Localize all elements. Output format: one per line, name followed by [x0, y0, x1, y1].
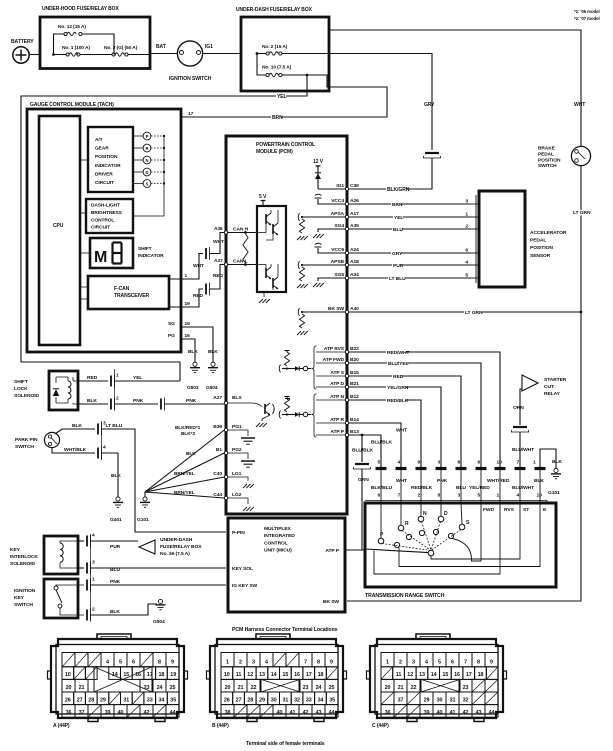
svg-text:BRN: BRN — [392, 202, 403, 208]
svg-text:SHIFT: SHIFT — [14, 379, 28, 385]
indicator lamp circles P R N D S — [143, 132, 151, 140]
svg-text:40: 40 — [437, 710, 443, 716]
svg-text:SWITCH: SWITCH — [538, 163, 557, 169]
svg-text:A18: A18 — [350, 259, 359, 265]
svg-text:ACCELERATOR: ACCELERATOR — [530, 230, 567, 236]
svg-text:22: 22 — [251, 685, 257, 691]
coil key interlock — [60, 543, 63, 562]
svg-text:4: 4 — [265, 660, 268, 666]
svg-text:40: 40 — [118, 710, 124, 716]
svg-text:31: 31 — [283, 697, 289, 703]
svg-text:33: 33 — [147, 697, 153, 703]
ground G101 left — [143, 497, 147, 501]
wire LG2 to ground — [228, 498, 248, 504]
svg-text:CPU: CPU — [53, 223, 64, 229]
svg-text:CIRCUIT: CIRCUIT — [95, 180, 114, 186]
svg-text:RVS: RVS — [504, 507, 515, 513]
svg-text:23: 23 — [463, 685, 469, 691]
gauge control module (TACH) box — [27, 109, 181, 352]
svg-text:UNDER-DASH: UNDER-DASH — [160, 537, 193, 543]
svg-text:APSB: APSB — [331, 259, 345, 265]
svg-text:YEL: YEL — [133, 375, 142, 381]
svg-text:PEDAL: PEDAL — [530, 238, 546, 244]
svg-text:2: 2 — [418, 493, 421, 499]
svg-text:4: 4 — [106, 660, 109, 666]
svg-text:4: 4 — [465, 260, 468, 266]
svg-text:1: 1 — [116, 373, 119, 379]
svg-text:29: 29 — [100, 697, 106, 703]
svg-text:BLU/BLK: BLU/BLK — [371, 440, 393, 446]
svg-text:KEY: KEY — [14, 595, 25, 601]
svg-text:A40: A40 — [350, 306, 359, 312]
svg-text:8: 8 — [317, 660, 320, 666]
svg-text:WHT: WHT — [574, 102, 586, 108]
wire BRN A26 — [349, 203, 471, 205]
svg-text:10: 10 — [65, 672, 71, 678]
svg-text:GRY: GRY — [424, 102, 435, 108]
svg-text:UNIT (MICU): UNIT (MICU) — [264, 548, 292, 554]
wire BLU to MICU — [78, 567, 84, 569]
svg-text:29: 29 — [424, 697, 430, 703]
svg-text:WHT: WHT — [396, 478, 407, 484]
svg-text:PNK: PNK — [437, 478, 448, 484]
svg-text:9: 9 — [490, 660, 493, 666]
wire BLU A35 — [349, 228, 471, 230]
svg-text:ATP D: ATP D — [330, 381, 344, 387]
wire RED/BLK B12 — [349, 400, 421, 467]
connector B (44P) — [210, 639, 343, 718]
svg-text:SOLENOID: SOLENOID — [14, 393, 40, 399]
svg-text:A35: A35 — [350, 223, 359, 229]
node LT GRN junction — [580, 311, 583, 314]
svg-text:ATP RVS: ATP RVS — [324, 346, 345, 352]
svg-text:31: 31 — [123, 697, 129, 703]
svg-text:19: 19 — [185, 301, 191, 307]
svg-text:B13: B13 — [350, 429, 359, 435]
svg-text:39: 39 — [105, 710, 111, 716]
transistor CAN H pair — [265, 214, 267, 224]
svg-text:BLK*2: BLK*2 — [181, 431, 195, 437]
svg-text:34: 34 — [318, 697, 324, 703]
svg-text:LG2: LG2 — [232, 492, 242, 498]
svg-text:BRAKE: BRAKE — [538, 146, 556, 152]
wire ORN to capacitor — [520, 389, 522, 425]
svg-text:36: 36 — [66, 710, 72, 716]
svg-text:YEL: YEL — [394, 215, 403, 221]
wire No.2 fuse to GRY drop — [329, 54, 432, 151]
svg-text:42: 42 — [463, 710, 469, 716]
wire SG4 internal to ground — [318, 229, 345, 232]
svg-text:KEY SOL: KEY SOL — [232, 566, 253, 572]
svg-text:SENSOR: SENSOR — [530, 253, 551, 259]
svg-text:DRIVER: DRIVER — [95, 171, 113, 177]
svg-text:30: 30 — [271, 697, 277, 703]
wire F-CAN WHT to CAN H — [169, 254, 203, 280]
svg-text:S: S — [466, 520, 470, 526]
resistor CAN termination — [243, 234, 248, 263]
svg-text:35: 35 — [170, 697, 176, 703]
bracket ATP upper group — [312, 346, 317, 389]
triangle connector under-dash box — [139, 540, 155, 554]
starter cut relay triangle — [522, 375, 538, 391]
svg-text:R: R — [405, 521, 409, 527]
svg-text:BRN/YEL: BRN/YEL — [174, 471, 195, 477]
svg-text:BLK/GRN: BLK/GRN — [387, 187, 410, 193]
svg-text:BRN/YEL: BRN/YEL — [174, 490, 195, 496]
wire MICU ATP P — [345, 549, 362, 551]
svg-text:A34: A34 — [350, 272, 359, 278]
wire SG to ground — [182, 327, 214, 362]
svg-text:RED: RED — [87, 375, 98, 381]
svg-text:YEL/GRN: YEL/GRN — [387, 385, 409, 391]
svg-text:TRANSMISSION RANGE SWITCH: TRANSMISSION RANGE SWITCH — [365, 593, 445, 599]
ground G503 gauge — [193, 362, 197, 366]
node under-dash bus junction — [256, 52, 259, 55]
svg-text:G503: G503 — [187, 385, 199, 391]
svg-text:10: 10 — [224, 672, 230, 678]
svg-text:18: 18 — [478, 672, 484, 678]
svg-text:LG1: LG1 — [232, 471, 242, 477]
capacitor on GRY wire — [425, 152, 439, 154]
svg-text:4: 4 — [92, 533, 95, 539]
svg-text:24: 24 — [316, 685, 322, 691]
svg-text:C36: C36 — [350, 183, 359, 189]
wire APSA internal with protection — [302, 216, 345, 218]
svg-text:12 V: 12 V — [313, 159, 324, 165]
svg-text:CONTROL: CONTROL — [264, 540, 288, 546]
svg-text:A24: A24 — [350, 247, 359, 253]
svg-text:IG KEY SW: IG KEY SW — [232, 583, 258, 589]
svg-text:20: 20 — [385, 685, 391, 691]
svg-text:BLK: BLK — [110, 609, 120, 615]
svg-text:YEL/RED: YEL/RED — [469, 485, 490, 491]
svg-text:3: 3 — [412, 660, 415, 666]
svg-text:BLK: BLK — [87, 398, 97, 404]
svg-text:28: 28 — [247, 697, 253, 703]
svg-text:35: 35 — [329, 697, 335, 703]
svg-text:POSITION: POSITION — [530, 245, 553, 251]
svg-text:Terminal side of female termin: Terminal side of female terminals — [246, 741, 325, 747]
svg-text:4: 4 — [398, 460, 401, 466]
wire B13 branch to capacitor GRN — [361, 435, 363, 462]
svg-text:41: 41 — [290, 710, 296, 716]
svg-text:33: 33 — [306, 697, 312, 703]
svg-text:No. 2 (G) (50 A): No. 2 (G) (50 A) — [104, 45, 138, 51]
svg-text:13: 13 — [259, 672, 265, 678]
diode shift lock — [55, 377, 57, 403]
svg-text:19: 19 — [170, 672, 176, 678]
wire RVS return — [374, 503, 500, 574]
svg-text:C40: C40 — [213, 471, 222, 477]
wire top feed to brake switch — [329, 30, 581, 146]
svg-text:21: 21 — [398, 685, 404, 691]
range switch connector bars — [376, 467, 387, 470]
svg-text:ST: ST — [523, 507, 529, 513]
ATP lower driver circuit — [285, 396, 290, 398]
svg-text:GEAR: GEAR — [95, 146, 109, 152]
svg-text:GRN: GRN — [358, 477, 369, 483]
capacitor VCC4 internal — [318, 199, 345, 204]
CPU box — [39, 116, 80, 345]
svg-text:F-CAN: F-CAN — [114, 286, 130, 292]
svg-text:BLK: BLK — [188, 349, 198, 355]
svg-text:CONTROL: CONTROL — [91, 217, 114, 223]
svg-text:APSA: APSA — [331, 211, 345, 217]
wire CPU to shift indicator box — [80, 252, 90, 254]
wire PNK to MICU — [86, 580, 88, 591]
svg-text:7: 7 — [304, 660, 307, 666]
node bus junction — [52, 53, 55, 56]
wire CPU to dash-light box — [80, 212, 86, 214]
svg-text:WHT: WHT — [213, 239, 224, 245]
svg-text:KEY: KEY — [10, 547, 21, 553]
ground G101 right — [554, 468, 558, 472]
svg-text:27: 27 — [77, 697, 83, 703]
wire ATP P B13 — [349, 435, 381, 467]
svg-text:PEDAL: PEDAL — [538, 151, 554, 157]
svg-text:WHT: WHT — [193, 263, 204, 269]
svg-text:17: 17 — [306, 672, 312, 678]
svg-text:2: 2 — [399, 660, 402, 666]
svg-text:GAUGE CONTROL MODULE (TACH): GAUGE CONTROL MODULE (TACH) — [30, 102, 114, 108]
svg-text:1: 1 — [226, 660, 229, 666]
accelerator pedal position sensor box — [479, 191, 525, 287]
svg-text:23: 23 — [303, 685, 309, 691]
svg-text:IG1: IG1 — [336, 183, 344, 189]
svg-text:SWITCH: SWITCH — [15, 444, 34, 450]
range switch inner contacts — [394, 542, 399, 547]
svg-text:21: 21 — [238, 685, 244, 691]
svg-text:SG: SG — [168, 321, 175, 327]
connector on RED wire — [205, 284, 207, 295]
wire LG1 to ground — [228, 477, 248, 481]
svg-text:SWITCH: SWITCH — [14, 602, 33, 608]
wire CPU to A/T gear box — [80, 159, 88, 161]
svg-text:16: 16 — [454, 672, 460, 678]
svg-text:R: R — [146, 146, 149, 151]
svg-text:M: M — [94, 249, 107, 266]
svg-text:4: 4 — [517, 493, 520, 499]
svg-text:No. 2 (15 A): No. 2 (15 A) — [262, 44, 288, 50]
svg-text:7: 7 — [398, 493, 401, 499]
svg-text:6: 6 — [378, 493, 381, 499]
svg-text:6: 6 — [451, 660, 454, 666]
svg-text:9: 9 — [171, 660, 174, 666]
svg-text:POSITION: POSITION — [95, 154, 118, 160]
svg-text:26: 26 — [224, 697, 230, 703]
svg-text:ATP N: ATP N — [330, 394, 344, 400]
svg-text:MODULE (PCM): MODULE (PCM) — [256, 149, 293, 155]
svg-text:3: 3 — [465, 199, 468, 205]
svg-text:N: N — [146, 158, 149, 163]
svg-text:15: 15 — [443, 672, 449, 678]
ground G401 — [116, 497, 120, 501]
svg-text:12: 12 — [407, 672, 413, 678]
wire CAN H into box — [228, 232, 257, 234]
shift lock solenoid box — [49, 371, 78, 410]
svg-text:G504: G504 — [153, 619, 165, 625]
svg-text:17: 17 — [466, 672, 472, 678]
svg-text:41: 41 — [450, 710, 456, 716]
svg-text:6: 6 — [132, 660, 135, 666]
wire F-CAN RED to CAN L — [169, 289, 203, 307]
svg-text:G401: G401 — [110, 517, 122, 523]
svg-text:7: 7 — [517, 460, 520, 466]
wire YEL/GRN B21 — [349, 387, 441, 467]
svg-text:44: 44 — [329, 710, 335, 716]
svg-text:1: 1 — [465, 212, 468, 218]
svg-text:16: 16 — [294, 672, 300, 678]
svg-text:36: 36 — [385, 710, 391, 716]
svg-text:A26: A26 — [350, 198, 359, 204]
pin A36 CAN H — [224, 231, 227, 234]
APP sensor pins — [471, 203, 476, 205]
svg-text:RED/BLK: RED/BLK — [411, 485, 433, 491]
svg-text:B22: B22 — [350, 346, 359, 352]
svg-text:C (44P): C (44P) — [372, 723, 389, 729]
svg-text:15: 15 — [185, 321, 191, 327]
svg-text:16: 16 — [185, 333, 191, 339]
svg-text:8: 8 — [458, 460, 461, 466]
svg-text:D: D — [444, 511, 448, 517]
svg-text:LT BLU: LT BLU — [106, 423, 123, 429]
svg-text:B1: B1 — [216, 447, 222, 453]
svg-text:No. 12 (15 A): No. 12 (15 A) — [58, 24, 86, 30]
svg-text:43: 43 — [316, 710, 322, 716]
svg-text:BLU/YEL: BLU/YEL — [388, 361, 409, 367]
svg-text:39: 39 — [424, 710, 430, 716]
wire YEL A17 — [349, 216, 471, 218]
wire CAN L into box — [228, 264, 257, 266]
svg-text:31: 31 — [450, 697, 456, 703]
svg-text:42: 42 — [303, 710, 309, 716]
wire PG2 to ground — [228, 453, 248, 459]
resistor BLS driver — [285, 398, 290, 400]
svg-text:No. 10 (7.5 A): No. 10 (7.5 A) — [262, 65, 292, 71]
switch contacts ignition key — [54, 586, 58, 590]
transmission range switch box — [365, 503, 556, 587]
svg-text:ATP FWD: ATP FWD — [323, 357, 345, 363]
svg-text:PG: PG — [168, 333, 175, 339]
svg-text:44: 44 — [170, 710, 176, 716]
svg-text:14: 14 — [271, 672, 277, 678]
svg-text:30: 30 — [437, 697, 443, 703]
ignition switch — [177, 41, 202, 66]
svg-text:A27: A27 — [213, 395, 222, 401]
svg-text:10: 10 — [537, 493, 543, 499]
svg-text:SG4: SG4 — [334, 223, 344, 229]
svg-text:5: 5 — [378, 460, 381, 466]
svg-text:A36: A36 — [214, 226, 223, 232]
wire box to ignition switch — [150, 53, 178, 55]
svg-text:3: 3 — [458, 493, 461, 499]
svg-text:1: 1 — [386, 660, 389, 666]
wire ignition switch to under-dash box — [203, 53, 241, 55]
svg-text:INTERLOCK: INTERLOCK — [10, 554, 38, 560]
svg-text:38: 38 — [225, 710, 231, 716]
svg-text:PNK: PNK — [110, 579, 121, 585]
shift indicator box M8 — [90, 238, 133, 268]
svg-text:ATP P: ATP P — [330, 429, 344, 435]
wire park pin BLK - LT BLU — [55, 429, 95, 434]
svg-text:CUT: CUT — [544, 384, 554, 390]
svg-text:*2: '07 model: *2: '07 model — [574, 16, 600, 21]
svg-text:G504: G504 — [206, 385, 218, 391]
svg-text:VCC5: VCC5 — [331, 247, 344, 253]
svg-text:24: 24 — [157, 685, 163, 691]
svg-text:PCM Harness Connector Terminal: PCM Harness Connector Terminal Locations — [232, 627, 338, 633]
svg-text:BLK: BLK — [534, 478, 544, 484]
svg-text:B20: B20 — [350, 357, 359, 363]
wire ST return — [431, 503, 520, 559]
wire SG5 internal to ground — [318, 278, 345, 281]
dashed contact lines — [382, 544, 431, 551]
svg-text:BATTERY: BATTERY — [11, 39, 34, 45]
svg-text:5: 5 — [119, 660, 122, 666]
svg-text:25: 25 — [329, 685, 335, 691]
svg-text:CIRCUIT: CIRCUIT — [91, 225, 110, 231]
svg-text:No. 36 (7.5 A): No. 36 (7.5 A) — [160, 551, 190, 557]
wire park pin WHT/BLK — [52, 448, 95, 453]
svg-text:B15: B15 — [350, 370, 359, 376]
ignition key switch box — [44, 579, 78, 618]
wire BLK to G504 — [86, 610, 88, 621]
connector bracket key components — [90, 534, 92, 621]
wire GRN down to range switch — [362, 469, 365, 550]
svg-text:ATP R: ATP R — [330, 417, 344, 423]
svg-text:BLS: BLS — [232, 395, 242, 401]
fuse No. 10 (7.5 A) — [257, 54, 266, 76]
svg-text:LT BLU: LT BLU — [389, 276, 406, 282]
svg-text:BLU: BLU — [110, 567, 120, 573]
capacitor starter cut — [513, 426, 527, 428]
wire BK SW internal with protection — [302, 311, 345, 313]
svg-text:2: 2 — [116, 396, 119, 402]
svg-text:37: 37 — [79, 710, 85, 716]
svg-text:B12: B12 — [350, 394, 359, 400]
svg-text:8: 8 — [438, 493, 441, 499]
wire GRY A24 — [349, 252, 471, 254]
svg-text:RELAY: RELAY — [544, 391, 561, 397]
svg-text:B (44P): B (44P) — [212, 723, 229, 729]
CAN driver box — [257, 206, 286, 292]
wire main bus — [54, 54, 151, 56]
svg-text:10: 10 — [497, 460, 503, 466]
svg-text:BLU: BLU — [456, 485, 466, 491]
pin A37 CAN L — [224, 263, 227, 266]
svg-text:17: 17 — [188, 111, 194, 117]
svg-text:A/T: A/T — [95, 137, 103, 143]
svg-text:BLU/WHT: BLU/WHT — [512, 447, 534, 453]
svg-text:6: 6 — [478, 460, 481, 466]
svg-text:2: 2 — [92, 607, 95, 613]
svg-text:14: 14 — [431, 672, 437, 678]
ATP upper driver circuit — [285, 350, 290, 352]
svg-text:PUR: PUR — [110, 544, 121, 550]
svg-text:3: 3 — [92, 560, 95, 566]
svg-text:DASH-LIGHT: DASH-LIGHT — [91, 203, 120, 209]
svg-text:2: 2 — [465, 224, 468, 230]
svg-text:RED: RED — [213, 273, 224, 279]
svg-text:G101: G101 — [137, 517, 149, 523]
svg-text:18: 18 — [318, 672, 324, 678]
wire lamp bus to dash-light box — [133, 136, 164, 216]
svg-text:BLK: BLK — [111, 473, 121, 479]
svg-text:5: 5 — [438, 660, 441, 666]
park pin switch — [44, 432, 59, 447]
svg-text:26: 26 — [65, 697, 71, 703]
svg-text:SG5: SG5 — [334, 272, 344, 278]
